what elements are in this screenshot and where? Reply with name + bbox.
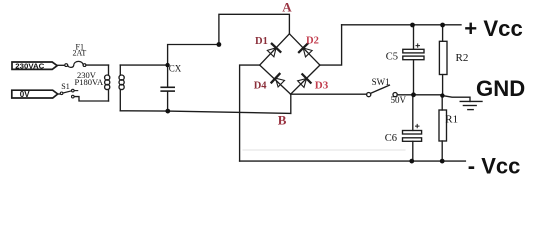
svg-text:- Vcc: - Vcc — [468, 153, 521, 178]
svg-text:D1: D1 — [255, 36, 268, 47]
svg-text:B: B — [278, 112, 287, 127]
svg-text:50V: 50V — [391, 95, 407, 105]
svg-text:0V: 0V — [20, 90, 30, 99]
svg-text:GND: GND — [476, 76, 525, 101]
svg-text:SW1: SW1 — [372, 77, 390, 87]
svg-text:C5: C5 — [386, 51, 398, 62]
svg-text:CX: CX — [169, 64, 182, 74]
svg-text:S1: S1 — [61, 82, 69, 91]
svg-text:R2: R2 — [456, 52, 469, 64]
svg-text:230VAC: 230VAC — [15, 63, 44, 70]
svg-text:2AT: 2AT — [73, 49, 87, 58]
svg-text:D4: D4 — [254, 80, 268, 91]
svg-text:C6: C6 — [385, 133, 397, 144]
svg-text:D3: D3 — [315, 79, 329, 91]
svg-text:A: A — [282, 0, 292, 15]
svg-text:+ Vcc: + Vcc — [464, 16, 523, 41]
svg-text:P180VA: P180VA — [75, 77, 105, 87]
svg-text:R1: R1 — [445, 114, 458, 126]
svg-text:D2: D2 — [306, 36, 319, 47]
